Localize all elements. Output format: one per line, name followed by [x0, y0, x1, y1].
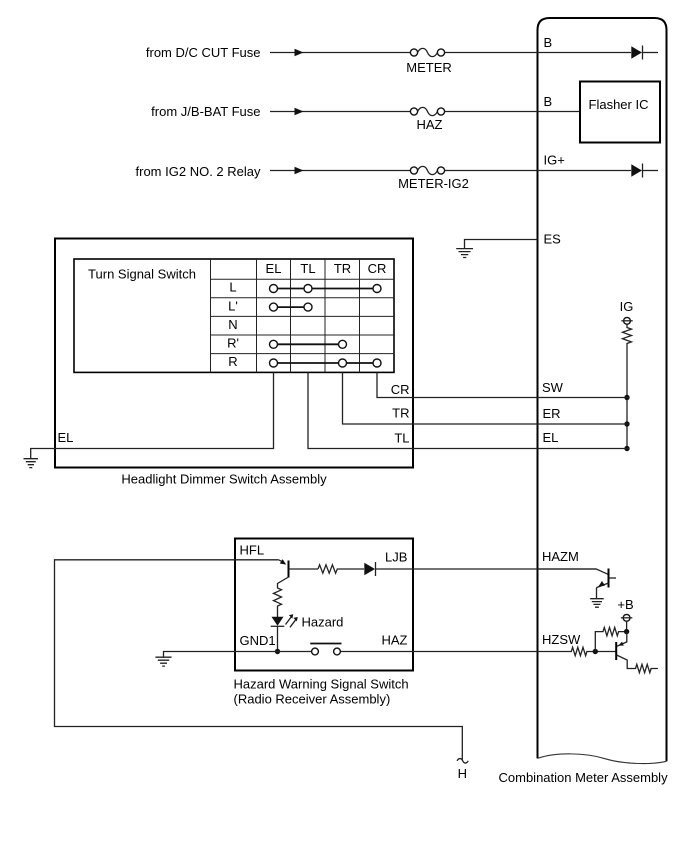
svg-text:HAZ: HAZ [382, 633, 408, 648]
svg-text:METER: METER [406, 60, 452, 75]
svg-text:HAZM: HAZM [542, 549, 579, 564]
svg-text:ES: ES [544, 232, 562, 247]
svg-text:TR: TR [334, 261, 351, 276]
svg-text:from IG2 NO. 2 Relay: from IG2 NO. 2 Relay [136, 164, 261, 179]
svg-text:SW: SW [542, 380, 564, 395]
svg-text:Combination Meter Assembly: Combination Meter Assembly [499, 770, 669, 785]
svg-text:L': L' [228, 298, 238, 313]
svg-text:METER-IG2: METER-IG2 [398, 176, 469, 191]
svg-text:Flasher IC: Flasher IC [589, 97, 649, 112]
svg-text:HZSW: HZSW [542, 632, 581, 647]
svg-text:GND1: GND1 [240, 633, 276, 648]
svg-text:H: H [458, 766, 467, 781]
svg-text:Hazard Warning Signal Switch: Hazard Warning Signal Switch [234, 677, 409, 692]
svg-text:TL: TL [394, 431, 409, 446]
svg-text:IG+: IG+ [544, 153, 565, 168]
svg-text:+B: +B [617, 597, 633, 612]
svg-text:LJB: LJB [385, 550, 407, 565]
svg-text:(Radio Receiver Assembly): (Radio Receiver Assembly) [234, 692, 391, 707]
svg-text:from D/C CUT Fuse: from D/C CUT Fuse [146, 45, 261, 60]
svg-text:CR: CR [391, 382, 410, 397]
svg-text:HFL: HFL [240, 543, 265, 558]
svg-text:EL: EL [266, 261, 282, 276]
svg-text:TL: TL [300, 261, 315, 276]
svg-text:B: B [544, 94, 553, 109]
svg-text:L: L [229, 280, 236, 295]
svg-text:R: R [228, 354, 237, 369]
svg-text:Headlight Dimmer Switch Assemb: Headlight Dimmer Switch Assembly [121, 472, 327, 487]
svg-text:IG: IG [620, 299, 634, 314]
svg-text:EL: EL [543, 430, 559, 445]
svg-text:CR: CR [368, 261, 387, 276]
svg-text:Turn Signal Switch: Turn Signal Switch [88, 267, 196, 282]
svg-text:R': R' [227, 336, 239, 351]
svg-text:Hazard: Hazard [302, 615, 344, 630]
svg-text:TR: TR [392, 406, 409, 421]
svg-text:N: N [228, 317, 237, 332]
svg-text:from J/B-BAT Fuse: from J/B-BAT Fuse [151, 104, 260, 119]
svg-text:ER: ER [543, 406, 561, 421]
svg-text:EL: EL [58, 430, 74, 445]
svg-text:B: B [544, 35, 553, 50]
svg-text:HAZ: HAZ [417, 117, 443, 132]
